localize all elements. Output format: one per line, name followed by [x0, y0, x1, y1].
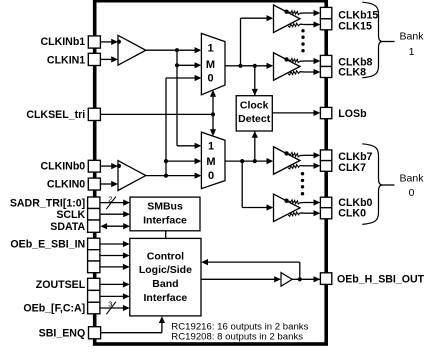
- svg-text:LOSb: LOSb: [338, 108, 367, 120]
- svg-text:OEb_E_SBI_IN: OEb_E_SBI_IN: [10, 239, 85, 251]
- svg-text:0: 0: [409, 187, 415, 199]
- svg-text:SADR_TRI[1:0]: SADR_TRI[1:0]: [10, 197, 85, 209]
- svg-text:Control: Control: [147, 250, 184, 262]
- svg-text:Clock: Clock: [240, 99, 269, 111]
- svg-text:OEb_[F,C:A]: OEb_[F,C:A]: [23, 303, 85, 315]
- svg-text:CLKIN1: CLKIN1: [47, 54, 85, 66]
- svg-text:CLK15: CLK15: [338, 21, 372, 33]
- svg-text:Detect: Detect: [238, 113, 271, 125]
- svg-text:CLK7: CLK7: [338, 162, 366, 174]
- svg-text:CLK8: CLK8: [338, 67, 366, 79]
- svg-text:CLKb7: CLKb7: [338, 151, 372, 163]
- svg-text:0: 0: [208, 170, 214, 182]
- svg-text:CLKINb1: CLKINb1: [40, 36, 85, 48]
- svg-text:CLKINb0: CLKINb0: [40, 161, 85, 173]
- svg-text:SMBus: SMBus: [147, 200, 183, 212]
- svg-text:1: 1: [208, 140, 214, 152]
- svg-text:Logic/Side: Logic/Side: [139, 264, 192, 276]
- svg-text:Bank: Bank: [400, 172, 425, 184]
- svg-text:CLK0: CLK0: [338, 207, 366, 219]
- svg-text:0: 0: [207, 72, 213, 84]
- svg-text:ZOUTSEL: ZOUTSEL: [36, 279, 86, 291]
- svg-text:3: 3: [108, 300, 112, 309]
- svg-text:Band: Band: [152, 278, 178, 290]
- svg-text:RC19208: 8 outputs in 2 banks: RC19208: 8 outputs in 2 banks: [171, 331, 303, 342]
- svg-text:Interface: Interface: [144, 292, 188, 304]
- svg-text:SBI_ENQ: SBI_ENQ: [39, 327, 86, 339]
- svg-text:M: M: [206, 59, 215, 71]
- svg-text:OEb_H_SBI_OUT: OEb_H_SBI_OUT: [337, 273, 425, 285]
- svg-text:SCLK: SCLK: [56, 209, 85, 221]
- svg-text:CLKIN0: CLKIN0: [47, 179, 85, 191]
- svg-text:CLKSEL_tri: CLKSEL_tri: [26, 109, 85, 121]
- svg-text:1: 1: [207, 42, 213, 54]
- svg-text:2: 2: [108, 194, 112, 203]
- svg-text:M: M: [206, 156, 215, 168]
- svg-text:SDATA: SDATA: [50, 221, 85, 233]
- svg-text:1: 1: [409, 46, 415, 58]
- svg-text:Bank: Bank: [400, 31, 425, 43]
- svg-text:Interface: Interface: [143, 214, 187, 226]
